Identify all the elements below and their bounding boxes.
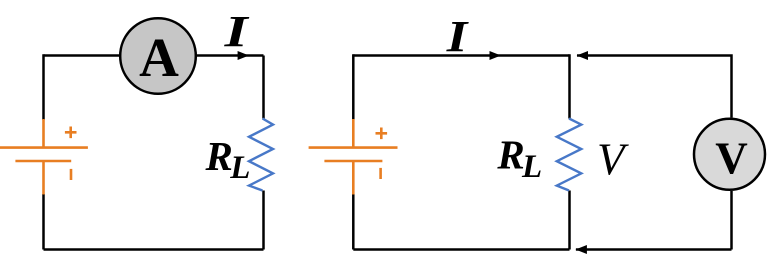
svg-text:I: I [446,12,470,61]
svg-text:L: L [521,149,542,185]
svg-text:L: L [229,150,250,186]
svg-text:V: V [715,134,748,184]
svg-text:I: I [223,7,250,56]
svg-text:A: A [139,27,179,88]
svg-text:R: R [205,133,233,179]
svg-text:R: R [496,132,524,178]
svg-text:V: V [597,135,629,185]
